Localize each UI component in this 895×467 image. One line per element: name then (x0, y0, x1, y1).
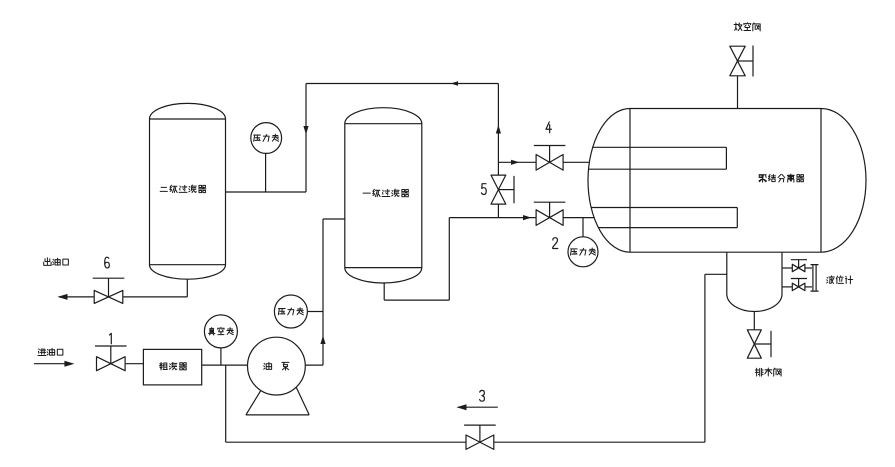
separator lower internal tube (591, 208, 737, 228)
vent valve 放空阀 (vertical) (730, 46, 753, 77)
pipe: strainer to pump suction (202, 364, 248, 366)
label: oil inlet 进油口 (38, 348, 63, 355)
label 液位计 (827, 276, 853, 284)
vacuum gauge 真空表 (204, 315, 237, 348)
pressure gauge PG3 riser (582, 218, 584, 238)
pipe: valve4 to separator upper tube (563, 161, 589, 163)
level gauge glass (811, 265, 819, 292)
label 放空阀 (734, 23, 760, 31)
separator boot (727, 252, 782, 311)
pipe: line to valve 2 (449, 215, 536, 220)
valve 6 (93, 257, 125, 303)
pipe: branch to valve 4 (498, 160, 536, 165)
pipe: valve2 to separator lower tube (563, 217, 594, 219)
pressure gauge PG2 connector (307, 311, 323, 313)
pipe: valve1 to strainer (126, 363, 144, 365)
vacuum gauge VG riser (220, 348, 222, 365)
pipe: right riser (valve4/5 junction to top line) (496, 84, 501, 176)
pipe: return riser to suction (225, 365, 227, 442)
pressure gauge PG1 riser (265, 152, 267, 192)
pipe: pump discharge (305, 219, 345, 365)
pipe: below valve5 to lower line (497, 204, 499, 218)
pipe: inlet arrow (34, 361, 74, 367)
pipe: top return line (306, 81, 498, 85)
pressure gauge PG3 (568, 237, 598, 267)
pressure gauge PG2 (274, 295, 307, 328)
valve 2 (534, 202, 566, 248)
valve 1 (95, 333, 127, 370)
pipe: oil outlet with arrow (58, 294, 94, 300)
pipe: left downcomer into secondary filter (303, 84, 308, 193)
vent pipe (737, 76, 739, 108)
vessel: secondary filter 二级过滤器 (150, 103, 226, 279)
valve 3 (464, 390, 496, 449)
pipe: primary filter bottom outlet loop (384, 218, 449, 301)
label: oil outlet 出油口 (44, 258, 69, 266)
vessel: primary filter 一级过滤器 (345, 108, 422, 283)
pipe: boot to bottom return (705, 274, 727, 442)
level gauge lower tap (782, 279, 812, 291)
separator upper internal tube (589, 147, 727, 169)
valve 4 (534, 122, 566, 170)
pump base (246, 388, 309, 415)
pipe: bottom return line (226, 441, 705, 443)
flow arrow above valve 3 (457, 404, 498, 410)
drain pipe (753, 311, 755, 329)
pipe: secondary filter bottom outlet (123, 279, 187, 297)
oil pump 油泵 (248, 337, 306, 395)
level gauge upper tap (782, 260, 812, 272)
label 排水阀 (755, 368, 781, 376)
strainer box 粗滤器 (143, 349, 201, 385)
pressure gauge PG1 (251, 123, 282, 154)
valve 5 (vertical) (481, 175, 514, 204)
pipe: secondary filter inlet header (226, 191, 306, 193)
vessel: coalescing separator 聚结分离器 (588, 109, 866, 253)
drain valve 排水阀 (vertical) (747, 330, 771, 358)
